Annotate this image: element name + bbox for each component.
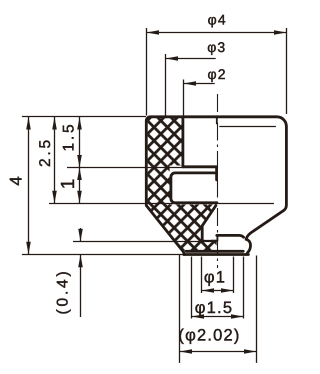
svg-text:φ1: φ1 xyxy=(204,269,226,287)
svg-text:(φ2.02): (φ2.02) xyxy=(178,327,240,345)
svg-text:φ4: φ4 xyxy=(208,12,227,28)
svg-text:1: 1 xyxy=(58,176,79,189)
svg-text:(0.4): (0.4) xyxy=(55,269,72,315)
svg-text:φ3: φ3 xyxy=(207,39,226,55)
svg-text:φ1.5: φ1.5 xyxy=(195,299,233,317)
svg-text:4: 4 xyxy=(6,173,25,185)
svg-text:φ2: φ2 xyxy=(208,66,227,82)
svg-text:1.5: 1.5 xyxy=(61,122,78,152)
svg-text:2.5: 2.5 xyxy=(37,137,54,167)
